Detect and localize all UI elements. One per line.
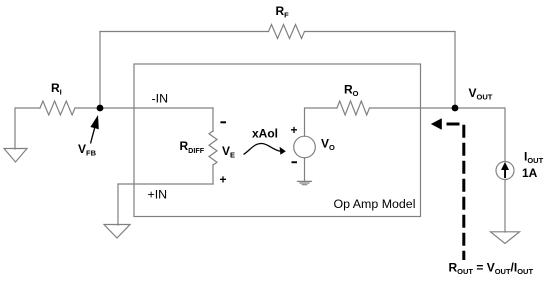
node VOUT junction dot bbox=[452, 105, 459, 112]
svg-text:1A: 1A bbox=[522, 166, 538, 180]
svg-text:Op Amp Model: Op Amp Model bbox=[334, 197, 416, 211]
polarity minus RDIFF bbox=[220, 121, 226, 123]
svg-text:VFB: VFB bbox=[78, 142, 97, 158]
wire RDIFF top lead bbox=[212, 108, 214, 131]
svg-text:xAol: xAol bbox=[252, 127, 278, 141]
wire RI to node A bbox=[75, 107, 100, 109]
wire VO bottom lead to ground bbox=[304, 158, 306, 181]
ground IOUT triangle bbox=[491, 232, 520, 244]
polarity minus VO bbox=[292, 161, 298, 163]
svg-text:RI: RI bbox=[51, 81, 62, 97]
wire VOUT node to current source bbox=[455, 108, 505, 162]
source VO circle bbox=[294, 136, 316, 158]
wire top from node A to RF bbox=[100, 31, 269, 33]
resistor RI zigzag bbox=[40, 101, 75, 115]
svg-text:VE: VE bbox=[222, 144, 235, 160]
svg-text:RDIFF: RDIFF bbox=[180, 139, 205, 155]
resistor RO zigzag bbox=[337, 101, 370, 115]
wire RO to VOUT node bbox=[370, 107, 456, 109]
svg-text:VO: VO bbox=[321, 137, 335, 153]
wire IOUT to ground bbox=[504, 180, 506, 233]
wire ground lead left bbox=[15, 108, 40, 149]
svg-text:RF: RF bbox=[276, 4, 290, 20]
ground VO small bbox=[298, 181, 312, 184]
wire right vertical down to VOUT node bbox=[454, 32, 456, 109]
arrowhead xAol bbox=[280, 147, 286, 155]
svg-text:RO: RO bbox=[344, 83, 359, 99]
resistor RDIFF zigzag bbox=[209, 131, 217, 165]
node A junction dot bbox=[97, 105, 104, 112]
wire -IN from node A to RDIFF top bbox=[100, 107, 213, 109]
wire +IN to left bbox=[118, 183, 213, 185]
current source IOUT circle bbox=[496, 162, 514, 180]
wire +IN down to ground bbox=[117, 184, 119, 225]
arrow IOUT inside source bbox=[501, 162, 509, 178]
dashed ROUT measurement path bbox=[442, 124, 464, 260]
wire top from RF to right corner bbox=[305, 31, 456, 33]
svg-text:+: + bbox=[291, 123, 298, 137]
resistor RF zigzag bbox=[269, 25, 305, 39]
svg-text:+IN: +IN bbox=[148, 187, 168, 201]
arrow VFB pointing to node A bbox=[90, 115, 98, 144]
svg-text:IOUT: IOUT bbox=[524, 150, 544, 166]
ground left triangle bbox=[4, 149, 27, 163]
ground +IN triangle bbox=[104, 225, 130, 239]
wire RDIFF bottom lead bbox=[212, 165, 214, 184]
op amp model box bbox=[134, 64, 421, 217]
svg-text:VOUT: VOUT bbox=[469, 86, 493, 102]
svg-text:-IN: -IN bbox=[152, 92, 169, 106]
arrow xAol squiggle bbox=[244, 143, 281, 154]
wire left vertical from top to node A bbox=[99, 32, 101, 109]
svg-text:ROUT = VOUT/IOUT: ROUT = VOUT/IOUT bbox=[449, 261, 534, 277]
svg-text:+: + bbox=[220, 173, 227, 187]
arrowhead dashed pointing left bbox=[431, 118, 442, 130]
wire VO source top lead bbox=[305, 108, 338, 136]
